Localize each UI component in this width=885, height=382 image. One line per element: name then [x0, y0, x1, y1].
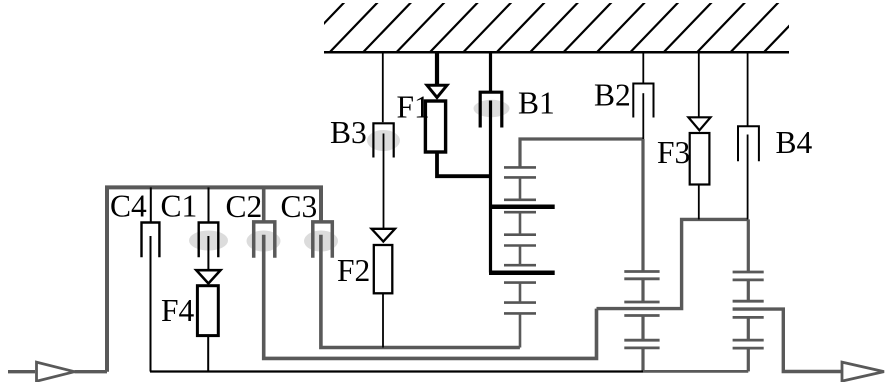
svg-text:C3: C3	[281, 189, 318, 224]
svg-text:C4: C4	[110, 189, 147, 224]
svg-text:C1: C1	[161, 189, 198, 224]
svg-text:B4: B4	[776, 125, 813, 160]
svg-text:F1: F1	[397, 90, 430, 125]
svg-text:F3: F3	[657, 135, 690, 170]
svg-text:B1: B1	[518, 86, 555, 121]
svg-text:B3: B3	[330, 115, 367, 150]
svg-text:F2: F2	[337, 253, 370, 288]
svg-text:B2: B2	[594, 78, 631, 113]
svg-text:C2: C2	[226, 189, 263, 224]
svg-text:F4: F4	[161, 293, 195, 328]
